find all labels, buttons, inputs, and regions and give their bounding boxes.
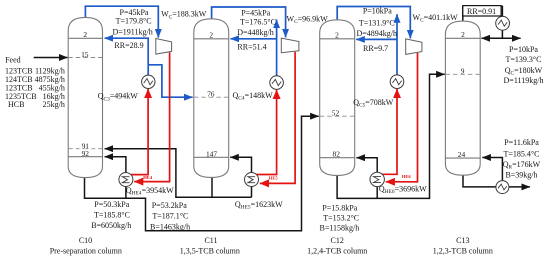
node C12 distillate data labels [356, 6, 397, 53]
node tray 15 dashed line [68, 57, 102, 59]
node column titles [50, 236, 493, 256]
compressor K2 (C11 heat pump) [281, 38, 299, 53]
svg-text:C10: C10 [79, 236, 92, 245]
node condenser duty labels [98, 91, 394, 109]
svg-text:D=1911kg/h: D=1911kg/h [112, 27, 152, 36]
svg-text:15: 15 [81, 50, 89, 59]
svg-text:P=45kPa: P=45kPa [120, 8, 149, 17]
wire HE4 outlet to condenser Qc3 [131, 89, 149, 175]
wire C11 bottoms header [211, 177, 213, 198]
wire C13 overhead vapor to condenser [463, 6, 503, 23]
wire C10 compressor discharge to HE4 (red) [134, 52, 169, 181]
wire C13 distillate product out [502, 37, 520, 39]
node C11 distillate data labels [237, 8, 276, 51]
svg-text:P=53.2kPa: P=53.2kPa [152, 201, 187, 210]
node tray 91 dashed line [68, 148, 102, 150]
condenser Qc4 [270, 76, 284, 90]
column C10 vessel [68, 17, 102, 177]
compressor K3 (C12 heat pump) [406, 39, 422, 55]
svg-text:D=4894kg/h: D=4894kg/h [356, 29, 397, 38]
svg-text:P=50.3kPa: P=50.3kPa [94, 200, 129, 209]
svg-text:1,2,4-TCB column: 1,2,4-TCB column [307, 247, 367, 256]
svg-text:T=185.8°C: T=185.8°C [94, 210, 130, 219]
wire HE4 reboiler loop riser into C10 tray 92 [105, 157, 126, 199]
svg-text:P=45kPa: P=45kPa [241, 8, 270, 17]
svg-text:HE4: HE4 [143, 175, 153, 180]
wire C12 reflux [356, 38, 397, 40]
svg-text:RR=9.7: RR=9.7 [363, 44, 388, 53]
svg-text:76: 76 [207, 89, 215, 98]
svg-text:Pre-separation column: Pre-separation column [50, 247, 122, 256]
node tray numbers [79, 30, 469, 159]
svg-text:QR=176kW: QR=176kW [503, 160, 541, 171]
svg-text:2: 2 [83, 30, 87, 39]
svg-text:T=179.8°C: T=179.8°C [116, 17, 152, 26]
heat exchanger HE6 [370, 172, 384, 186]
svg-text:RR=51.4: RR=51.4 [237, 42, 266, 51]
node tray 52 dashed line [320, 115, 355, 117]
compressor K1 (C10 heat pump) [156, 39, 172, 55]
wire HE6 outlet to condenser Qc5 [382, 89, 397, 174]
wire C12 condensate riser and distillate product arrow [396, 14, 398, 75]
condenser C13 overhead [496, 16, 510, 30]
wire C13 reboiler vapor return to tray 24 [482, 158, 502, 187]
svg-text:T=187.1°C: T=187.1°C [152, 212, 188, 221]
svg-text:D=1119kg/h: D=1119kg/h [504, 76, 544, 85]
column C11 vessel [194, 19, 229, 178]
wire C11 reflux [230, 38, 276, 40]
svg-text:2: 2 [461, 30, 465, 39]
wire C10 distillate to C11 tray 76 [148, 65, 192, 97]
node RR=0.91 label box [463, 6, 501, 16]
node tray 76 dashed line [194, 96, 229, 98]
svg-text:P=11.6kPa: P=11.6kPa [504, 138, 539, 147]
svg-text:B=1158kg/h: B=1158kg/h [320, 223, 360, 232]
svg-text:RR=0.91: RR=0.91 [467, 7, 496, 16]
svg-text:HCB: HCB [8, 100, 24, 109]
heat exchanger HE5 [245, 173, 259, 187]
svg-text:C11: C11 [204, 236, 217, 245]
wire HE6 reboiler loop riser into C12 tray 82 [356, 158, 377, 199]
wire C10 bottoms to C12 feed (black) [85, 116, 319, 231]
node compressor W labels [161, 10, 458, 25]
wire C13 condensate splitter [481, 24, 502, 39]
wire C12 compressor discharge to HE6 [386, 53, 418, 182]
wire HE5 reboiler loop riser into C11 tray 147 [230, 157, 251, 197]
svg-text:C12: C12 [331, 236, 344, 245]
svg-text:D=448kg/h: D=448kg/h [237, 28, 274, 37]
node tray 9 dashed line [445, 73, 480, 75]
node C10 bottoms data labels [91, 200, 131, 230]
svg-text:T=176.5°C: T=176.5°C [240, 17, 276, 26]
wire HE5 outlet to condenser Qc4 [256, 90, 276, 175]
svg-text:T=185.4°C: T=185.4°C [504, 149, 540, 158]
svg-text:C13: C13 [456, 236, 469, 245]
svg-text:P=15.8kPa: P=15.8kPa [322, 203, 357, 212]
svg-text:52: 52 [332, 108, 340, 117]
svg-text:9: 9 [461, 67, 465, 76]
svg-text:1,2,3-TCB column: 1,2,3-TCB column [433, 247, 493, 256]
svg-text:25kg/h: 25kg/h [43, 100, 65, 109]
column C13 vessel [445, 21, 480, 175]
svg-text:147: 147 [206, 149, 217, 158]
node C10 distillate data labels [112, 8, 152, 50]
svg-text:HE6: HE6 [402, 174, 412, 179]
condenser Qc3 [142, 75, 155, 88]
heat exchanger HE4 [119, 173, 133, 187]
svg-text:2: 2 [209, 31, 213, 40]
svg-text:T=131.9°C: T=131.9°C [359, 18, 395, 27]
svg-text:92: 92 [82, 149, 90, 158]
svg-text:B=6050kg/h: B=6050kg/h [91, 221, 131, 230]
wire C10 reflux from condenser Qc3 [105, 38, 149, 75]
node C13 distillate data labels [504, 45, 544, 85]
svg-text:2: 2 [335, 31, 339, 40]
wire C13 bottoms product out [502, 186, 530, 188]
svg-text:T=153.2°C: T=153.2°C [323, 213, 359, 222]
svg-text:B=1463kg/h: B=1463kg/h [150, 222, 190, 231]
svg-text:24: 24 [458, 150, 466, 159]
node heat exchanger duty labels [126, 185, 427, 211]
reboiler C13 [496, 181, 509, 194]
condenser Qc5 [390, 75, 404, 89]
svg-text:RR=28.9: RR=28.9 [114, 41, 143, 50]
column C12 vessel [320, 20, 355, 176]
svg-text:P=10kPa: P=10kPa [509, 45, 538, 54]
wire C13 bottoms to reboiler [463, 175, 502, 187]
node C13 bottoms data labels [503, 138, 541, 180]
wire C12 overhead vapor to compressor [337, 7, 410, 39]
wire C11 overhead vapor to compressor [212, 7, 286, 37]
wire C11 compressor discharge to HE5 [260, 52, 295, 184]
svg-text:Feed: Feed [5, 55, 21, 64]
svg-text:P=10kPa: P=10kPa [363, 6, 392, 15]
node C12 bottoms data labels [320, 203, 360, 232]
node feed component list [5, 66, 65, 109]
wire C12 bottoms to C13 feed [337, 74, 445, 198]
wire C11 bottoms recycle into C10 tray 91 [105, 149, 252, 198]
wire C11 condensate riser and distillate product arrow [276, 20, 278, 76]
svg-text:82: 82 [333, 150, 341, 159]
svg-text:B=39kg/h: B=39kg/h [505, 170, 537, 179]
node C11 bottoms data labels [150, 201, 190, 232]
svg-text:QC=180kW: QC=180kW [505, 66, 543, 77]
svg-text:HE5: HE5 [269, 175, 279, 180]
wire feed arrow into C10 tray 15 [34, 57, 68, 59]
svg-text:T=139.3°C: T=139.3°C [506, 55, 542, 64]
svg-text:1,3,5-TCB column: 1,3,5-TCB column [180, 247, 240, 256]
wire C10 overhead vapor to compressor (blue) [85, 6, 158, 37]
